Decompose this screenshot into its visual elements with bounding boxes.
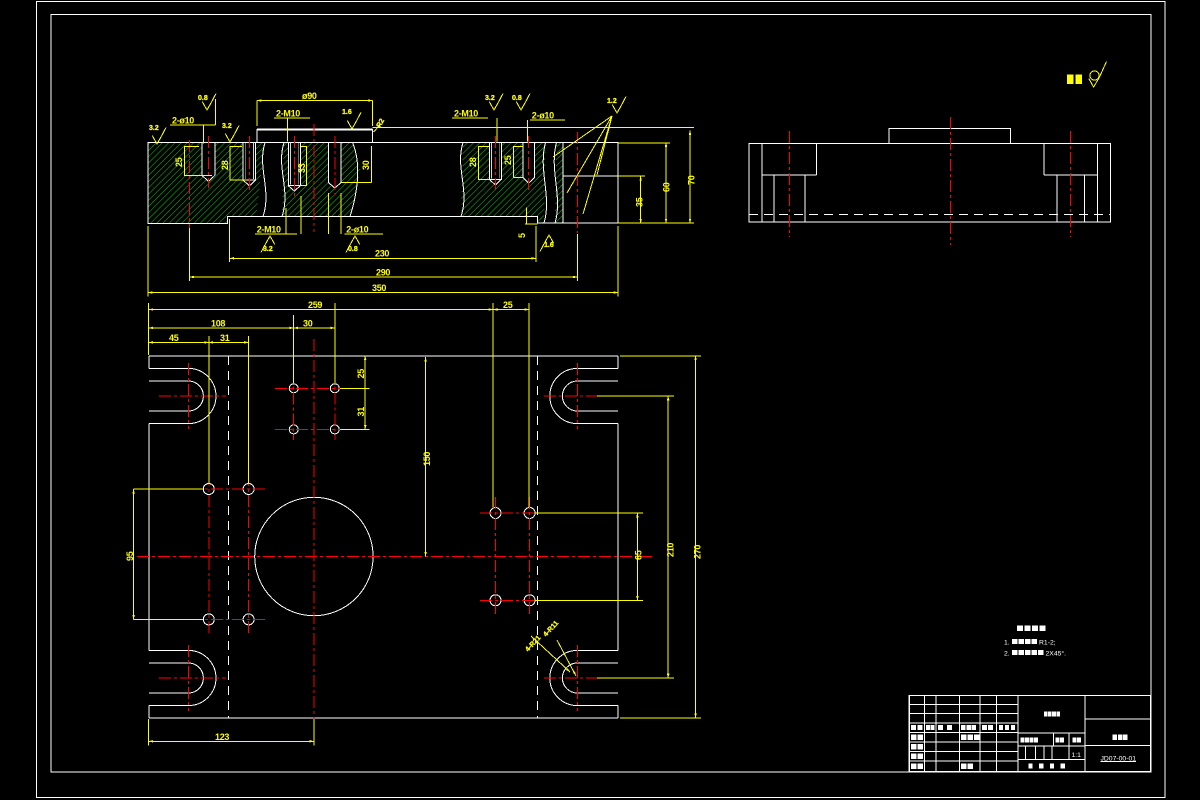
- dim 25 depth hole6: [513, 146, 522, 178]
- side view outline: [749, 144, 1110, 223]
- row: biaoji chushu fenqu etc: [911, 725, 916, 730]
- right hole group 4x: [490, 508, 501, 519]
- svg-text:70: 70: [687, 175, 697, 185]
- svg-text:2-M10: 2-M10: [454, 109, 478, 119]
- svg-text:2-ø10: 2-ø10: [346, 225, 368, 235]
- red cross slot top-right: [544, 363, 597, 429]
- svg-text:1.: 1.: [1004, 640, 1010, 647]
- hatch region right: [461, 143, 546, 224]
- dim 65: [636, 513, 638, 600]
- part name jiajuti: [1113, 735, 1118, 741]
- heading jishu yaoqiu: [1017, 626, 1023, 632]
- right end step line: [1097, 144, 1099, 223]
- red cross slot top-left: [159, 363, 226, 429]
- svg-text:150: 150: [422, 452, 432, 466]
- red main horizontal centerline: [137, 556, 652, 558]
- dim 25/31 vertical right of top group: [364, 356, 366, 430]
- middle marks cells: [1025, 733, 1069, 759]
- dim 35: [640, 176, 642, 223]
- extension line block top to 60 dim: [618, 142, 670, 144]
- svg-text:28: 28: [468, 157, 478, 167]
- dim 5 step: [525, 208, 538, 224]
- svg-text:33: 33: [297, 163, 307, 173]
- dim 290: [190, 276, 578, 278]
- slot bottom-left outer: [149, 650, 216, 705]
- svg-text:2-ø10: 2-ø10: [532, 111, 554, 121]
- svg-text:31: 31: [356, 407, 366, 417]
- right slot walls: [1057, 175, 1085, 222]
- break line 4: [543, 143, 546, 224]
- svg-text:1:1: 1:1: [1072, 752, 1082, 759]
- right end recess line: [563, 143, 618, 224]
- svg-text:2-ø10: 2-ø10: [172, 116, 194, 126]
- svg-text:108: 108: [211, 318, 225, 328]
- svg-text:25: 25: [503, 155, 513, 165]
- dim phi90: [257, 100, 373, 102]
- row: shenhe: [911, 754, 917, 760]
- hole interiors blackout: [202, 142, 215, 182]
- slot bottom-right outer: [550, 650, 618, 705]
- block outline: [148, 143, 618, 224]
- svg-text:25: 25: [503, 300, 513, 310]
- left slot walls: [774, 175, 805, 222]
- roughness check left edge: [152, 128, 166, 145]
- svg-text:28: 28: [220, 160, 230, 170]
- label 4-R21 leader: [531, 636, 570, 672]
- left hole group 4x: [203, 484, 214, 495]
- boss on top: [889, 129, 1011, 144]
- svg-text:1.6: 1.6: [342, 109, 352, 116]
- svg-text:31: 31: [220, 333, 230, 343]
- roughness 1.6 below step: [540, 235, 554, 252]
- svg-text:ø90: ø90: [302, 91, 317, 101]
- top hole group 4x: [289, 384, 298, 393]
- roughness 1.2 with leader fan: [612, 97, 626, 114]
- svg-text:230: 230: [375, 249, 389, 259]
- dim 25 top: [493, 309, 529, 311]
- svg-text:350: 350: [372, 283, 386, 293]
- svg-text:210: 210: [666, 543, 676, 557]
- dim 108: [149, 327, 294, 329]
- left end step line: [761, 144, 763, 223]
- tuyangbiaoji zhongliang bili: [1021, 737, 1025, 742]
- svg-text:R1-2;: R1-2;: [1039, 639, 1056, 646]
- label 4-R11 leader: [557, 640, 576, 676]
- svg-text:1.2: 1.2: [607, 98, 617, 105]
- red centerline left slot: [788, 131, 790, 237]
- roughness symbol with circle: [1090, 71, 1099, 80]
- hole 2 M10: [243, 143, 256, 186]
- svg-text:1.6: 1.6: [544, 242, 554, 249]
- break line 5: [554, 143, 557, 224]
- hatch boundary curve right of hole 4: [350, 143, 358, 217]
- dim 30: [294, 327, 335, 329]
- dim 30 depth hole4: [342, 146, 372, 183]
- dim 25 depth hole1: [184, 146, 212, 176]
- red centerline right slot: [1070, 131, 1072, 237]
- svg-text:3.2: 3.2: [485, 95, 495, 102]
- left signature table verticals: [925, 696, 1019, 773]
- roughness check block top: [225, 126, 239, 143]
- right pocket: [1044, 144, 1098, 176]
- slot bottom-right inner: [562, 663, 618, 693]
- slot top-left inner: [149, 381, 203, 411]
- slot bottom-left inner: [149, 663, 203, 693]
- svg-text:25: 25: [356, 369, 366, 379]
- central bore phi90: [255, 497, 373, 615]
- svg-text:290: 290: [376, 268, 390, 278]
- slot top-right inner: [562, 381, 618, 411]
- roughness check 1.6 plate top: [347, 112, 361, 129]
- svg-text:0.8: 0.8: [198, 95, 208, 102]
- dim 28 depth hole2: [230, 146, 247, 180]
- row: sheji: [911, 735, 917, 741]
- left pocket: [762, 144, 816, 176]
- red cross slot bottom-right: [544, 645, 597, 711]
- svg-text:123: 123: [215, 732, 229, 742]
- dim 270: [695, 356, 697, 718]
- svg-text:2.: 2.: [1004, 651, 1010, 658]
- svg-text:259: 259: [308, 300, 322, 310]
- row: jiaodui: [911, 744, 917, 750]
- svg-text:30: 30: [303, 318, 313, 328]
- svg-text:3.2: 3.2: [149, 125, 159, 132]
- qiyu characters: [1067, 75, 1074, 85]
- svg-text:0.8: 0.8: [348, 246, 358, 253]
- dim 230: [230, 257, 536, 259]
- extension lines top dims: [148, 303, 150, 355]
- gong zhang di zhang: [1029, 764, 1033, 769]
- hidden line right: [536, 356, 538, 718]
- red centerline middle: [950, 117, 952, 245]
- slot top-right outer: [550, 368, 618, 423]
- red centerline left slot axis: [189, 140, 191, 228]
- red cross slot bottom-left: [159, 645, 226, 711]
- school name: [1044, 711, 1048, 716]
- hole 6 phi10: [523, 143, 535, 184]
- svg-text:35: 35: [635, 197, 645, 207]
- left signature table horizontals: [909, 705, 1018, 762]
- dim 210: [667, 396, 669, 678]
- dim 60: [665, 143, 667, 224]
- svg-text:270: 270: [693, 545, 703, 559]
- extension line recess to 35 dim: [618, 175, 645, 177]
- svg-text:95: 95: [125, 551, 135, 561]
- slot top-left outer: [149, 368, 216, 423]
- dim 33 depth hole3: [300, 146, 306, 186]
- break line 2: [282, 143, 285, 217]
- hole 4 phi10: [329, 143, 342, 189]
- right column lines: [1085, 719, 1151, 745]
- svg-text:60: 60: [662, 182, 672, 192]
- row: gongyi / pizhun: [911, 764, 917, 770]
- dim 31: [209, 341, 249, 343]
- hidden line left: [227, 356, 229, 718]
- svg-text:25: 25: [174, 157, 184, 167]
- red main vertical centerline: [313, 339, 315, 744]
- svg-text:65: 65: [634, 550, 644, 560]
- red crosses left hole group: [190, 474, 266, 634]
- svg-text:2-M10: 2-M10: [257, 225, 281, 235]
- locating plate on top: [257, 129, 373, 143]
- hidden line bottom: [749, 213, 1110, 215]
- hatch region mid-left: [282, 143, 360, 217]
- plate bottom edge: [149, 717, 618, 719]
- dim 150: [425, 357, 427, 557]
- extension line bottom right: [618, 222, 694, 224]
- red centerline right slot axis: [576, 132, 578, 233]
- plate left edge segments: [148, 356, 150, 718]
- svg-text:45: 45: [169, 333, 179, 343]
- svg-text:3.2: 3.2: [222, 123, 232, 130]
- plate right edge segments: [617, 356, 619, 718]
- hole 3 M10: [288, 143, 300, 192]
- svg-text:30: 30: [361, 160, 371, 170]
- dim 95: [133, 489, 135, 619]
- red centerline plate axis: [313, 124, 315, 232]
- svg-text:2X45°.: 2X45°.: [1046, 649, 1067, 657]
- red crosses right hole group: [480, 497, 546, 615]
- hole 5 M10: [490, 143, 502, 186]
- break line 1: [263, 143, 266, 217]
- svg-text:0.8: 0.8: [512, 95, 522, 102]
- svg-text:2-M10: 2-M10: [276, 109, 300, 119]
- hatch region left: [148, 143, 265, 224]
- dim 350: [148, 292, 618, 294]
- break line 3: [461, 143, 464, 217]
- hole 1 phi10: [202, 143, 215, 182]
- red centerlines of holes: [208, 136, 210, 188]
- roughness check hole1: [202, 94, 216, 111]
- dim 123: [149, 740, 314, 742]
- dim 259: [149, 309, 493, 311]
- dim 45: [149, 341, 209, 343]
- red crosses top hole group: [275, 351, 353, 440]
- svg-text:5: 5: [517, 233, 527, 238]
- hatch strip far right: [555, 143, 563, 224]
- dim 28 depth hole5: [478, 146, 489, 180]
- extension line plate top to 70 dim: [373, 126, 695, 128]
- title block outer: [909, 696, 1151, 772]
- dim 70: [689, 131, 691, 224]
- middle column lines: [1018, 696, 1085, 773]
- plate top edge: [149, 355, 618, 357]
- svg-text:3.2: 3.2: [263, 246, 273, 253]
